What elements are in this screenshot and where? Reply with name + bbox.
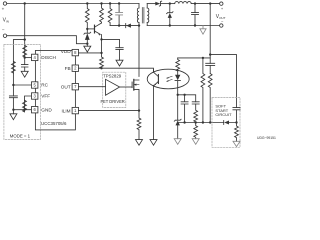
- wire cathode caps: [178, 95, 196, 102]
- wire GND pin: [13, 109, 31, 111]
- wire snubber: [110, 25, 139, 27]
- resistor R F2: [208, 74, 212, 123]
- resistor R ss: [235, 123, 239, 142]
- node W1 soft start: [235, 121, 237, 123]
- wire gate: [120, 86, 133, 88]
- wire rectifier to inductor: [161, 3, 175, 5]
- wire cathode to zener: [177, 95, 179, 120]
- wire rc resistor to cap: [12, 73, 14, 96]
- svg-text:CIRCUIT: CIRCUIT: [215, 112, 232, 117]
- transistor Q1: [94, 25, 96, 33]
- transformer core: [142, 8, 144, 24]
- node output cap top: [194, 2, 196, 4]
- dashed box soft start: [212, 98, 240, 148]
- node vff gnd: [23, 109, 25, 111]
- svg-text:VIN: VIN: [3, 17, 9, 23]
- wire DISCH pin: [25, 57, 32, 59]
- svg-text:DISCH: DISCH: [41, 55, 56, 60]
- IC U1 UCC35705 body: [35, 51, 75, 130]
- capacitor C out: [192, 4, 199, 26]
- wire line B: [178, 57, 211, 59]
- node line B F1: [202, 57, 204, 59]
- wire DISCH column top: [24, 40, 26, 46]
- zener D5: [84, 29, 91, 34]
- wire secondary top: [147, 3, 155, 5]
- wire base: [87, 28, 94, 30]
- wire OUT pin: [79, 86, 106, 88]
- optocoupler U3 body: [147, 69, 189, 89]
- wire vff resistor to gnd wire: [24, 110, 26, 111]
- node drain junction: [138, 24, 140, 26]
- node cap1 top: [183, 94, 185, 96]
- pin 3 box: [32, 93, 38, 99]
- zener D6: [174, 119, 181, 121]
- node catch diode bottom: [169, 24, 171, 26]
- svg-text:VFF: VFF: [41, 94, 50, 99]
- opto led: [177, 70, 179, 75]
- resistor R vff: [23, 100, 27, 112]
- ground vdd cap: [116, 60, 123, 66]
- node W1 F1: [202, 121, 204, 123]
- node zener base: [86, 28, 88, 30]
- node catch diode top: [169, 2, 171, 4]
- node RC tap: [12, 84, 14, 86]
- wire VIN- rail: [7, 36, 88, 44]
- resistor R F1: [201, 58, 205, 123]
- capacitor C fb1: [181, 95, 188, 123]
- terminal VOUT-: [220, 24, 223, 27]
- wire drain column: [138, 26, 140, 77]
- svg-text:UDG−99151: UDG−99151: [257, 136, 276, 140]
- ground opto emitter: [150, 140, 157, 146]
- wire ILIM pin: [79, 110, 140, 112]
- svg-text:OUT: OUT: [61, 85, 71, 90]
- ground zener fb: [174, 139, 181, 145]
- svg-text:MODE = 1: MODE = 1: [10, 134, 31, 139]
- node led cathode: [177, 94, 179, 96]
- svg-text:FET DRIVER: FET DRIVER: [101, 99, 125, 104]
- terminal VIN-: [3, 34, 6, 37]
- pin 4 box: [32, 54, 38, 60]
- ground R b: [192, 139, 199, 145]
- svg-text:GND: GND: [41, 107, 52, 112]
- ground rc column: [10, 114, 17, 120]
- capacitor rc: [9, 96, 17, 98]
- svg-text:−: −: [2, 28, 5, 33]
- wire VFF pin: [25, 96, 32, 100]
- ground sense: [136, 140, 143, 146]
- node W1 cap1: [183, 121, 185, 123]
- pin 8 box: [72, 49, 78, 55]
- ground secondary: [200, 26, 206, 35]
- pin 7 box: [72, 84, 78, 90]
- terminal VIN+: [3, 2, 6, 5]
- node DISCH tap: [24, 56, 26, 58]
- svg-text:FB: FB: [65, 66, 71, 71]
- svg-text:ILIM: ILIM: [61, 108, 70, 113]
- node R1 rail: [86, 2, 88, 4]
- svg-text:TPS2829: TPS2829: [103, 73, 122, 78]
- wire secondary bottom rail: [147, 25, 219, 27]
- dashed box TPS2829: [103, 72, 126, 107]
- terminal VOUT+: [220, 2, 223, 5]
- inductor L1: [175, 2, 192, 4]
- svg-text:RC: RC: [41, 83, 48, 88]
- resistor R fb: [100, 53, 104, 69]
- resistor R opto feed: [176, 58, 180, 71]
- node VFF/RC branch: [24, 38, 26, 40]
- node rc gnd: [12, 109, 14, 111]
- opto phototransistor: [157, 75, 159, 84]
- node output cap bottom: [194, 24, 196, 26]
- resistor R1 bias: [85, 4, 89, 31]
- transformer T1 secondary: [147, 8, 149, 23]
- wire top rail VIN+: [7, 3, 139, 5]
- node vout top: [209, 2, 211, 4]
- svg-text:UCC35705/6: UCC35705/6: [41, 121, 67, 126]
- diode D1 rectifier: [155, 2, 160, 6]
- op-amp buffer driver: [106, 79, 120, 95]
- diode D2 clamp: [125, 24, 127, 28]
- resistor R disch: [23, 45, 27, 57]
- node input rail junction: [24, 2, 26, 4]
- node FB junction: [100, 67, 102, 69]
- wire emitter to vdd cap: [102, 39, 120, 47]
- resistor R3 snubber: [108, 4, 112, 26]
- wire branch to RC column: [13, 40, 24, 62]
- wire rc cap to gnd wire: [12, 98, 14, 114]
- ground disch: [21, 71, 28, 77]
- pin 1 box: [72, 107, 78, 113]
- diode D4 catch: [167, 4, 173, 14]
- diode D3 soft start: [223, 121, 225, 125]
- node C3 rail: [118, 2, 120, 4]
- capacitor C F2: [206, 63, 215, 73]
- node zener anode: [86, 43, 88, 45]
- wire FB to opto collector: [79, 68, 154, 72]
- wire input feed down: [24, 4, 26, 40]
- node emitter branch: [100, 38, 102, 40]
- wire line A to soft start: [210, 55, 236, 108]
- wire VDD pin: [79, 52, 102, 54]
- wire opto emitter: [153, 85, 155, 139]
- wire vdd cap to ground: [119, 50, 121, 61]
- node snubber cap: [118, 24, 120, 26]
- capacitor C ss: [233, 108, 240, 123]
- node R2 rail: [100, 2, 102, 4]
- resistor R b: [194, 123, 198, 139]
- resistor R sense: [137, 111, 141, 140]
- wire disch resistor to cap: [24, 57, 26, 64]
- node line A: [209, 53, 211, 55]
- transformer T1 primary: [137, 8, 139, 23]
- capacitor C vdd: [116, 48, 123, 50]
- node VDD: [100, 52, 102, 54]
- capacitor C fb2: [192, 102, 199, 104]
- capacitor C3 snubber: [118, 4, 120, 26]
- pin 5 box: [32, 82, 38, 88]
- svg-text:+: +: [221, 6, 224, 11]
- dashed box mode network: [4, 45, 41, 140]
- svg-text:VDD: VDD: [61, 49, 72, 54]
- pin 6 box: [32, 107, 38, 113]
- wire RC pin: [13, 84, 31, 86]
- ground zener bias: [84, 46, 91, 52]
- wire opto collector: [153, 70, 155, 73]
- opto led arrows: [167, 76, 173, 81]
- node W1 Ra Rb: [195, 121, 197, 123]
- svg-text:+: +: [2, 6, 5, 11]
- wire vout sense column: [209, 4, 211, 64]
- node R3 rail: [109, 2, 111, 4]
- wire inductor to vout: [191, 3, 219, 5]
- transistor Q2 mosfet: [131, 82, 133, 88]
- resistor R rc: [11, 61, 15, 73]
- ground soft start: [233, 141, 240, 146]
- resistor R a: [194, 104, 198, 123]
- node source sense: [138, 109, 140, 111]
- node W1 F2: [209, 121, 211, 123]
- wire disch cap to ground: [24, 67, 26, 71]
- capacitor disch: [21, 65, 28, 67]
- pin 2 box: [72, 65, 78, 71]
- wire W1 feedback bus: [178, 122, 237, 124]
- resistor R2 bias: [100, 4, 104, 24]
